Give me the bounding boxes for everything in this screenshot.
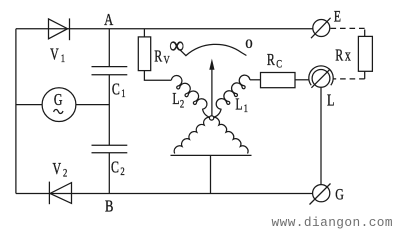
wire: left rail to generator	[16, 104, 42, 106]
svg-text:V: V	[50, 46, 59, 64]
svg-text:L: L	[327, 92, 334, 110]
label G terminal	[335, 186, 344, 204]
capacitor C1	[92, 66, 128, 68]
dashed wire: E to Rx	[331, 28, 365, 30]
svg-text:x: x	[345, 47, 351, 65]
terminal E	[313, 20, 330, 37]
svg-text:1: 1	[244, 103, 248, 116]
diode V2	[50, 183, 72, 204]
wire: node A down to C1	[108, 29, 110, 66]
svg-text:L: L	[235, 96, 242, 114]
terminal L	[312, 70, 330, 88]
node A	[104, 11, 113, 29]
svg-text:A: A	[104, 11, 113, 29]
label E	[334, 8, 341, 26]
deflecting coil left arm	[174, 117, 211, 153]
svg-text:∞: ∞	[169, 32, 184, 59]
label L2	[172, 90, 179, 108]
inductor L1	[212, 75, 250, 117]
svg-text:V: V	[53, 160, 62, 178]
svg-text:G: G	[335, 186, 344, 204]
label infinity	[169, 32, 184, 59]
svg-text:C: C	[111, 159, 119, 177]
label RV	[154, 48, 162, 66]
svg-text:2: 2	[180, 98, 184, 111]
svg-text:L: L	[172, 90, 179, 108]
wire: C2 down to node B	[108, 153, 110, 194]
node B	[105, 198, 113, 216]
label RC	[267, 51, 275, 69]
svg-text:www.diangon.com: www.diangon.com	[272, 215, 394, 230]
capacitor C2	[92, 144, 128, 146]
svg-text:R: R	[335, 47, 343, 65]
svg-text:E: E	[334, 8, 341, 26]
wire: L1 to RC	[250, 79, 261, 81]
deflecting coil base	[171, 154, 252, 156]
svg-text:R: R	[267, 51, 275, 69]
label L	[327, 92, 334, 110]
meter needle	[211, 69, 213, 118]
wire: L terminal down to G terminal	[320, 87, 322, 184]
wire: C1 to C2	[108, 75, 110, 145]
svg-text:C: C	[112, 81, 120, 99]
wire: RV bottom to L2 coil	[144, 71, 171, 81]
terminal G	[313, 185, 330, 202]
svg-text:2: 2	[63, 168, 67, 181]
wire: bottom rail from left corner to G terminal	[16, 193, 313, 195]
label C2	[111, 159, 119, 177]
svg-text:1: 1	[61, 53, 65, 66]
resistor RC	[261, 73, 296, 88]
resistor RV	[138, 37, 150, 71]
svg-text:C: C	[276, 58, 282, 71]
deflecting coil right arm	[212, 117, 248, 153]
inductor L2	[171, 75, 211, 117]
wire: coil base to bottom rail	[210, 155, 212, 193]
svg-text:G: G	[54, 91, 63, 109]
label V1	[50, 46, 59, 64]
meter scale arc	[180, 44, 246, 55]
label 0	[245, 37, 252, 51]
wire: stub top rail to RV	[143, 29, 145, 37]
generator G	[42, 88, 76, 122]
label Rx	[335, 47, 343, 65]
wire: top rail from left corner to E terminal	[16, 28, 313, 30]
wire: Rx bottom stub	[364, 71, 366, 79]
wire: RC to L terminal	[295, 79, 309, 81]
label V2	[53, 160, 62, 178]
wire: generator to A-B line	[76, 104, 109, 106]
diode V1	[49, 19, 68, 39]
resistor Rx (unknown)	[358, 36, 372, 71]
label C1	[112, 81, 120, 99]
svg-text:1: 1	[121, 88, 125, 101]
svg-text:B: B	[105, 198, 113, 216]
svg-text:2: 2	[120, 166, 124, 179]
svg-text:0: 0	[245, 37, 252, 51]
label L1	[235, 96, 242, 114]
junction node	[209, 116, 213, 120]
wire: left vertical rail	[15, 29, 17, 194]
dashed wire: Rx to L terminal	[333, 78, 364, 80]
svg-text:R: R	[154, 48, 162, 66]
